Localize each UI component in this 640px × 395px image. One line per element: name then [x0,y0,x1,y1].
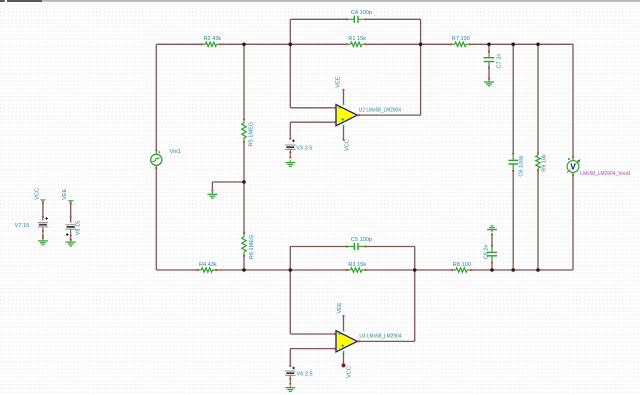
wire U2 inverting tap [290,44,333,108]
source V7 [38,202,49,238]
node C6 top [511,43,515,47]
svg-text:VCC: VCC [344,139,350,151]
ground under V3 [285,160,295,166]
capacitor C6 [509,152,518,172]
source Vin1 [151,149,162,169]
resistor R8 [451,268,472,272]
ground under V8 [66,239,76,246]
svg-text:U3 LMx58_LM2904: U3 LMx58_LM2904 [359,334,401,340]
source V8 [65,202,76,240]
node inverting tap bottom [289,268,293,272]
wire U3 inverting tap [290,270,333,334]
node R9 bottom [536,268,540,272]
svg-text:VEE: VEE [62,188,68,199]
wire U3 output [359,247,415,342]
label U2 VEE [336,76,342,87]
wire C6 upper [512,44,514,153]
label LMx58_LM2904_Vout1 [580,171,631,177]
wire bottom rail left [156,269,197,271]
node C6 bottom [511,268,515,272]
svg-text:R7 100: R7 100 [452,36,470,42]
label U3 VEE [337,302,343,313]
wire top rail right of R7 [470,43,573,45]
svg-text:VCC: VCC [347,366,353,378]
wire U2 noninverting [290,122,333,138]
label VCC supply [35,188,41,200]
resistor R2 [201,42,222,46]
svg-text:R8 100: R8 100 [453,262,471,268]
label R4 43k [199,262,217,268]
label R6 1MEG [249,235,255,260]
label C7 2n [496,53,502,68]
svg-text:V3 2.5: V3 2.5 [296,145,312,151]
resistor R4 [197,268,218,272]
node mid ground [242,180,246,184]
svg-text:V: V [570,161,576,171]
label V7 15 [15,223,30,229]
wire R9 lower [537,170,539,270]
ground under V6 [285,385,295,391]
op-amp U3 [334,315,361,368]
svg-text:VEE: VEE [337,302,343,313]
wire top rail left [156,43,201,45]
capacitor C5 [346,243,367,250]
label U3 VCC [347,366,353,378]
ground mid [207,190,217,199]
ground under C7 [484,78,494,86]
node U3 output [413,268,417,272]
capacitor C4 [346,16,367,23]
svg-text:U2 LMx58_LM2904: U2 LMx58_LM2904 [359,107,401,113]
resistor R7 [450,42,471,46]
svg-text:V6 2.5: V6 2.5 [297,371,313,377]
wire bottom rail right of R3 [366,269,453,271]
wire C5 branch [290,247,414,271]
wire voltmeter upper [572,44,574,157]
resistor R6 [242,232,246,257]
svg-text:C6 100p: C6 100p [518,155,524,176]
node C8 tap [490,268,494,272]
wire R5 column top [243,44,245,119]
label V6 2.5 [297,371,313,377]
node R9 top [536,43,540,47]
svg-text:C5 100p: C5 100p [351,237,372,243]
label R7 100 [452,36,470,42]
ground above C8 [487,226,497,235]
node inverting tap top [289,43,293,47]
svg-text:VEE: VEE [336,76,342,87]
toolbar edge right [42,0,640,2]
label U3 LMx58_LM2904 [359,334,401,340]
label VEE supply [62,188,68,199]
resistor R1 [346,42,367,46]
wire C8 to rail [491,263,493,271]
label U2 VCC [344,139,350,151]
toolbar edge top-left [0,0,42,2]
svg-text:R4 43k: R4 43k [199,262,217,268]
wire C7 to ground [488,68,490,79]
wire mid ground stub [212,182,244,190]
resistor R3 [346,268,367,272]
source V3 [285,138,296,159]
source V6 [285,365,296,385]
label R1 15k [348,36,366,42]
wire bottom rail mid [216,269,347,271]
wire R6 to bottom rail [243,256,245,270]
wire left column upper [155,44,157,150]
wire C6 lower [512,171,514,270]
wire top rail right of R1 [366,43,452,45]
svg-text:R6 1MEG: R6 1MEG [249,235,255,260]
wire R5 to mid node [243,142,245,182]
label R5 1MEG [248,122,254,147]
svg-text:R5 1MEG: R5 1MEG [248,122,254,147]
wire left column lower [155,168,157,270]
label R9 10k [541,154,547,172]
wire U3 noninverting [290,349,333,366]
node C7 tap [487,43,491,47]
svg-text:R9 10k: R9 10k [541,154,547,172]
node U2 output [419,43,423,47]
label C5 100p [351,237,372,243]
label V8 15 [76,221,82,236]
resistor R9 [536,152,540,171]
wire C7 stub [488,44,490,52]
svg-text:LMx58_LM2904_Vout1: LMx58_LM2904_Vout1 [580,171,631,177]
power node VEE tick [68,200,74,203]
svg-text:Vin1: Vin1 [170,149,181,155]
capacitor C8 [487,245,497,264]
label C4 100p [351,10,372,16]
wire voltmeter lower [572,175,574,270]
label R2 43k [204,36,222,42]
label Vin1 [170,149,181,155]
label V3 2.5 [296,145,312,151]
label C8 2n [484,244,490,259]
label U2 LMx58_LM2904 [359,107,401,113]
svg-text:V8 15: V8 15 [76,221,82,236]
wire R9 upper [537,44,539,153]
power node VCC tick [40,199,46,202]
wire bottom rail right of R8 [471,269,573,271]
svg-text:R2 43k: R2 43k [204,36,222,42]
wire R6 column top [243,182,245,233]
svg-text:C4 100p: C4 100p [351,10,372,16]
svg-text:C7 2n: C7 2n [496,53,502,68]
op-amp U2 [334,89,361,141]
svg-text:C8 2n: C8 2n [484,244,490,259]
voltmeter V [567,156,581,176]
ground under V7 [38,237,48,245]
capacitor C7 [484,51,495,69]
wire C8 from ground [491,234,493,245]
wire top rail mid [220,43,347,45]
node R2/R5 top [242,43,246,47]
node R6 bottom [242,268,246,272]
svg-text:VCC: VCC [35,188,41,200]
svg-text:R3 15k: R3 15k [348,262,366,268]
label R8 100 [453,262,471,268]
resistor R5 [242,118,246,143]
svg-text:R1 15k: R1 15k [348,36,366,42]
label R3 15k [348,262,366,268]
wire C4 branch [290,19,420,44]
wire U2 output [359,44,421,115]
label C6 100p [518,155,524,176]
svg-text:V7 15: V7 15 [15,223,30,229]
